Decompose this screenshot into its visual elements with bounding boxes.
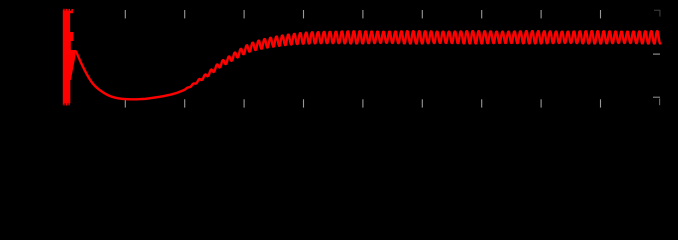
red trace: decay to minimum then growing oscillation to limit cycle [76,31,661,99]
oscillation chart [0,0,678,141]
x-axis bottom ticks [125,99,600,107]
top-right corner tick marks [654,10,660,17]
initial transient: dense oscillation block of the red trace [63,9,76,106]
bottom-right corner tick marks [653,97,660,105]
y-axis right tick (lower) [653,96,660,98]
y-axis right tick (upper) [653,53,660,55]
x-axis top ticks [125,10,600,18]
